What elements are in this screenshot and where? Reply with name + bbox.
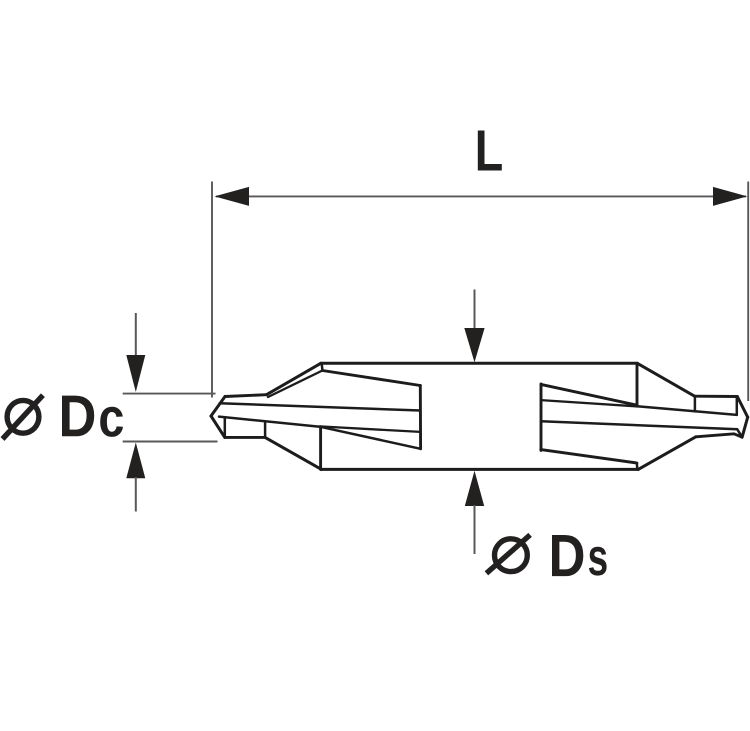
- left pilot top edge: [225, 395, 267, 397]
- small vertical at body top-left corner: [320, 363, 323, 370]
- right pilot bottom edge: [696, 434, 742, 437]
- right pilot right vertical: [736, 397, 739, 415]
- left tip top chamfer: [211, 397, 225, 417]
- Dc tick line bottom: [123, 441, 218, 443]
- left cutting lip line B: [219, 417, 320, 427]
- arrowhead L left: [215, 187, 250, 206]
- left bottom flute fan upper: [320, 426, 421, 432]
- right tip lower chamfer: [742, 417, 748, 437]
- right pilot left vertical: [694, 396, 697, 411]
- left flute top face edge: [322, 371, 420, 386]
- right cone bottom silhouette: [638, 437, 696, 470]
- Ds upper arrowhead (points down, tip on body top edge): [464, 328, 484, 362]
- Dc lower arrowhead (points up): [126, 443, 145, 479]
- right flute top edge: [541, 384, 637, 405]
- vertical at body bottom-left corner: [319, 427, 322, 470]
- label Ds letter s: [589, 547, 607, 576]
- left flute right vertical: [419, 386, 422, 449]
- body right edge vertical: [636, 363, 639, 406]
- right flute third line continuing to pilot: [541, 421, 742, 437]
- arrowhead L right: [713, 187, 747, 206]
- left cone top silhouette: [267, 363, 321, 394]
- right flute second line: [541, 400, 637, 406]
- dimension L label: [478, 131, 502, 171]
- body top edge: [321, 362, 638, 365]
- Ds upper arrow tail: [474, 290, 476, 331]
- Dc upper arrow tail: [135, 313, 137, 357]
- Ds lower arrow tail: [474, 505, 476, 554]
- right flute bottom edge: [541, 450, 637, 463]
- extension line left (tip of drill, x=212): [211, 182, 213, 398]
- right cutting lip line A: [637, 406, 737, 415]
- label Dc letter D: [62, 396, 94, 437]
- label Dc letter c: [100, 407, 123, 437]
- left pilot bottom face right vertical: [264, 421, 267, 437]
- label Ø Dc : diameter symbol: [3, 395, 43, 439]
- left pilot bottom edge: [225, 436, 265, 439]
- Dc upper arrowhead (points down): [126, 355, 145, 392]
- left cutting lip line A: [220, 403, 421, 410]
- right flute left vertical: [540, 384, 543, 451]
- left tip bottom chamfer: [211, 416, 225, 437]
- dimension line L: [216, 195, 746, 197]
- left bottom flute fan lower: [320, 427, 421, 449]
- right cone top silhouette: [637, 363, 695, 396]
- right pilot top edge: [695, 395, 738, 398]
- label Ø Ds : diameter symbol: [486, 535, 530, 573]
- Ds lower arrowhead (points up, tip on body bottom edge): [465, 471, 484, 506]
- Dc tick line top: [123, 393, 216, 395]
- body bottom edge: [321, 468, 638, 471]
- label Ds letter D: [552, 535, 583, 576]
- extension line right (x=748.4): [747, 182, 749, 402]
- left cone bottom silhouette: [265, 437, 321, 469]
- Dc lower arrow tail: [135, 477, 137, 512]
- small vertical at body bottom-right corner: [636, 463, 639, 469]
- right tip upper chamfer: [737, 397, 747, 418]
- left pilot bottom face left vertical: [224, 418, 227, 438]
- left cone flute line: [268, 371, 322, 398]
